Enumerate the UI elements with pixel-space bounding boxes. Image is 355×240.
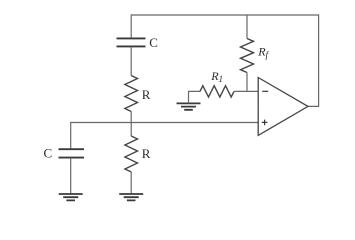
ground (below shunt C) <box>59 194 83 200</box>
wire R1 to op-amp inverting input <box>234 90 258 92</box>
wire shunt C to ground <box>70 158 72 194</box>
wire series R down through node to shunt R <box>130 112 132 137</box>
svg-text:C: C <box>44 146 53 161</box>
wire right side from output to top rail <box>308 14 319 106</box>
wire shunt R to ground <box>130 172 132 194</box>
ground (below shunt R) <box>119 194 143 200</box>
svg-text:C: C <box>149 35 158 50</box>
svg-text:R: R <box>142 146 151 161</box>
capacitor C (shunt, lower left) <box>59 149 85 157</box>
node horizontal wire to op-amp + input <box>71 122 259 124</box>
wire node down to shunt capacitor C <box>70 122 72 149</box>
resistor Rf (feedback) <box>241 39 254 73</box>
svg-text:R1: R1 <box>210 69 223 84</box>
resistor R (shunt, lower) <box>125 136 138 172</box>
resistor R1 (horizontal) <box>200 86 234 97</box>
wire Rf to inverting input node <box>246 73 248 92</box>
wire left branch top (rail to capacitor C) <box>130 14 132 38</box>
op-amp inverting input minus sign <box>262 90 268 92</box>
svg-text:Rf: Rf <box>257 45 269 60</box>
svg-text:R: R <box>142 87 151 102</box>
ground (inverting input side) <box>177 103 201 109</box>
wire top feedback rail <box>131 14 318 16</box>
wire ground to resistor R1 <box>189 91 201 103</box>
wire top rail down to resistor Rf <box>246 15 248 39</box>
resistor R (series, upper) <box>125 76 138 112</box>
capacitor C (top series) <box>117 38 146 46</box>
op-amp non-inverting input plus sign <box>262 120 268 126</box>
op-amp U1 triangle <box>258 78 308 136</box>
wire capacitor C to resistor R (series) <box>130 47 132 76</box>
